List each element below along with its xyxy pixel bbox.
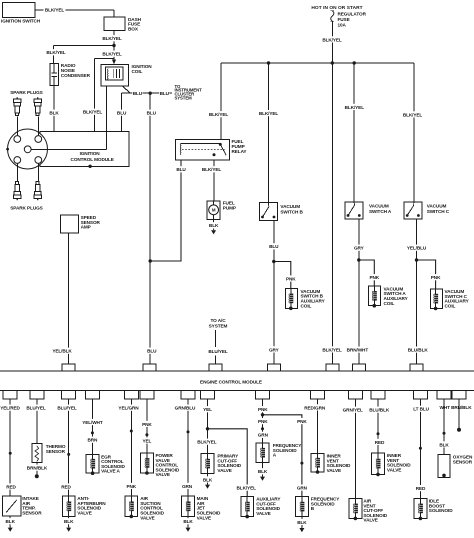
svg-text:BRN/BLK: BRN/BLK: [27, 466, 48, 471]
svg-text:BLK: BLK: [49, 111, 59, 116]
EGR control solenoid valve A: [86, 454, 125, 475]
ECM bottom pin 4: [85, 391, 99, 399]
svg-text:RED: RED: [61, 484, 71, 489]
wire ignition coil to module: [105, 86, 107, 131]
spark plugs label bottom: [10, 205, 42, 210]
svg-text:PUMP: PUMP: [223, 205, 236, 210]
ECM bottom pin 6: [140, 391, 154, 399]
node splice frequency solenoid B wire: [300, 462, 303, 465]
svg-text:BLK: BLK: [297, 520, 307, 525]
oxygen sensor: [438, 454, 473, 477]
svg-text:YEL: YEL: [203, 407, 212, 412]
svg-text:LT BLU: LT BLU: [413, 407, 429, 412]
wire ECM to EGR control solenoid valve YEL/WHT BRN: [81, 399, 103, 455]
svg-text:YEL/GRN: YEL/GRN: [118, 406, 139, 411]
ECM bottom pin 15: [452, 391, 466, 399]
wire distributor to spark plug bottom left: [16, 163, 18, 181]
node splice C5: [130, 430, 133, 433]
inner vent solenoid valve 2: [372, 453, 412, 476]
wire ignition switch to dash fuse box BLK/YEL: [35, 7, 114, 17]
wire ECM to inner vent solenoid valve RED/GRN: [304, 399, 326, 454]
air suction control solenoid valve: [125, 496, 165, 520]
svg-text:M: M: [212, 208, 216, 213]
node bus vacuum switch B tap: [267, 61, 270, 64]
ECM bottom pin 10: [311, 391, 325, 399]
ECM bottom pin 13: [413, 391, 427, 399]
svg-text:GRN: GRN: [182, 484, 193, 489]
wire ECM to oxygen sensor: [439, 399, 450, 455]
svg-text:BLK: BLK: [6, 519, 16, 524]
wire ECM to intake air temp sensor YEL/RED: [0, 399, 21, 496]
wire distributor to spark plug bottom right: [37, 163, 39, 181]
wire bus to vacuum switch A BLK/YEL: [343, 63, 365, 202]
svg-text:BLU: BLU: [160, 91, 170, 96]
wire ignition coil tach output BLU: [122, 86, 173, 96]
svg-text:COIL: COIL: [384, 301, 395, 306]
ground thermo sensor: [35, 474, 39, 478]
frequency solenoid A: [256, 443, 302, 463]
vacuum switch C auxiliary coil L3: [431, 289, 470, 311]
svg-text:BLK/YEL: BLK/YEL: [83, 110, 103, 115]
svg-text:BLK: BLK: [209, 223, 219, 228]
svg-text:BLK/YEL: BLK/YEL: [209, 112, 229, 117]
wire distributor to spark plug top left: [16, 117, 18, 136]
ground primary cut-off solenoid valve: [205, 483, 210, 489]
thermo sensor: [32, 444, 66, 463]
wire vacuum switch B output BLU to ECM GRY: [269, 221, 280, 365]
wire relay to fuel pump BLK/YEL: [201, 160, 223, 201]
ECM top pin 7: [410, 364, 423, 371]
node splice C9: [261, 427, 264, 430]
wire frequency solenoid A BLK to ground: [257, 462, 268, 475]
anti-afterburn solenoid valve: [62, 496, 106, 516]
svg-text:COIL: COIL: [445, 304, 456, 309]
wire main air jet BLK to ground: [183, 516, 194, 526]
node bus fuse junction: [331, 61, 334, 64]
svg-text:RED: RED: [375, 440, 385, 445]
wire frequency solenoid B BLK to ground: [297, 517, 308, 527]
svg-text:BLK/YEL: BLK/YEL: [322, 347, 342, 352]
wire ECM to anti-afterburn solenoid valve BLU/YEL: [56, 399, 78, 496]
svg-text:VALVE: VALVE: [197, 515, 211, 520]
svg-text:BLK/YEL: BLK/YEL: [197, 440, 217, 445]
svg-text:IGNITION: IGNITION: [80, 151, 101, 156]
ECM bottom pin 2: [30, 391, 44, 399]
vacuum switch A S2: [345, 202, 392, 219]
svg-text:BLU: BLU: [147, 111, 157, 116]
svg-text:RED/GRN: RED/GRN: [304, 405, 326, 410]
svg-text:BLU: BLU: [117, 111, 127, 116]
svg-text:SPARK PLUGS: SPARK PLUGS: [10, 90, 42, 95]
svg-text:CONDENSER: CONDENSER: [61, 73, 91, 78]
ground frequency solenoid B: [299, 527, 304, 533]
wire label WHT BRN/BLK: [439, 402, 473, 410]
wire ECM to air suction control solenoid valve YEL/GRN PNK: [118, 399, 140, 496]
node BLU junction to instrument cluster: [149, 92, 152, 95]
svg-text:GRN: GRN: [297, 486, 308, 491]
fuel pump M1: [207, 201, 236, 220]
ECM top pin 6: [352, 364, 365, 371]
wire ECM to air vent cut-off solenoid valve GRN/YEL: [342, 399, 364, 499]
ECM bottom pin 9: [256, 391, 270, 399]
svg-text:BLK/YEL: BLK/YEL: [237, 486, 257, 491]
power valve control solenoid valve: [141, 453, 180, 477]
svg-text:VACUUM: VACUUM: [427, 204, 447, 209]
svg-text:PNK: PNK: [126, 484, 136, 489]
svg-text:PNK: PNK: [258, 419, 268, 424]
distributor: [6, 129, 106, 169]
svg-text:COIL: COIL: [301, 303, 312, 308]
spark plugs label top: [10, 90, 42, 95]
vacuum switch A auxiliary coil L2: [368, 286, 408, 308]
wire distributor to spark plug top right: [37, 117, 39, 136]
wire primary cut-off BLK to ground: [202, 474, 213, 484]
svg-text:SYSTEM: SYSTEM: [175, 95, 193, 100]
node C8 branch junction: [206, 427, 209, 430]
svg-text:BLU: BLU: [176, 167, 186, 172]
svg-text:ENGINE CONTROL MODULE: ENGINE CONTROL MODULE: [200, 380, 262, 385]
svg-text:BLK/YEL: BLK/YEL: [102, 52, 122, 57]
wire junction to radio noise condenser: [45, 46, 114, 64]
wire fuel pump BLK to ground: [208, 219, 219, 228]
intake air temp sensor: [3, 496, 43, 516]
arrow into ignition coil: [112, 60, 116, 65]
wire ECM to primary cut-off solenoid valve YEL BLK/YEL: [196, 399, 218, 454]
idle boost solenoid: [414, 498, 453, 520]
wire ECM to power valve control solenoid valve PNK YEL: [142, 399, 153, 453]
svg-text:GRN/YEL: GRN/YEL: [343, 408, 363, 413]
node on module bottom edge: [88, 165, 91, 168]
svg-text:BLU/YEL: BLU/YEL: [208, 349, 228, 354]
junction node below dash fuse box: [112, 44, 115, 47]
ignition coil U1: [101, 64, 152, 86]
ground main air jet solenoid valve: [186, 526, 191, 532]
node stub end: [457, 428, 461, 432]
wire ECM to main air jet solenoid valve GRN/BLU GRN: [174, 399, 196, 496]
ground frequency solenoid A: [260, 475, 265, 481]
svg-text:BOX: BOX: [128, 26, 139, 31]
wire anti-afterburn BLK to ground: [64, 516, 75, 526]
vacuum switch C S3: [404, 202, 450, 219]
svg-text:BLK/YEL: BLK/YEL: [345, 105, 365, 110]
svg-text:YEL/RED: YEL/RED: [0, 406, 20, 411]
ground anti-afterburn solenoid valve: [66, 526, 71, 532]
wire to A/C system BLU/YEL: [207, 318, 229, 364]
node splice C13: [419, 447, 422, 450]
svg-text:RED: RED: [416, 486, 426, 491]
node splice C6: [145, 433, 148, 436]
svg-text:SOLENOID: SOLENOID: [429, 508, 453, 513]
wire ECM to idle boost solenoid LT BLU RED: [410, 399, 432, 499]
wire branch to vacuum switch B auxiliary coil PNK: [274, 262, 297, 289]
svg-text:SENSOR: SENSOR: [22, 511, 42, 516]
wire ECM stub BRN/BLK: [458, 399, 460, 429]
engine control module: [0, 371, 474, 391]
wire bus to vacuum switch C BLK/YEL: [402, 63, 424, 202]
wire bus to vacuum switch B BLK/YEL: [258, 63, 280, 203]
label to instrument cluster system: [175, 84, 203, 101]
wire branch to vacuum switch A auxiliary coil PNK: [359, 260, 380, 286]
svg-text:CONTROL MODULE: CONTROL MODULE: [71, 157, 114, 162]
svg-text:PNK: PNK: [142, 422, 152, 427]
regulator fuse 10A: [331, 11, 367, 28]
svg-text:YEL/WHT: YEL/WHT: [82, 420, 103, 425]
ECM bottom pin 11: [348, 391, 362, 399]
svg-text:BLU: BLU: [133, 91, 143, 96]
vacuum switch B auxiliary coil L1: [285, 288, 325, 310]
ECM bottom pin 3: [62, 391, 76, 399]
wire branch to frequency solenoid B PNK: [263, 415, 308, 497]
inner vent solenoid valve 1: [311, 453, 351, 474]
svg-text:GRN/BLU: GRN/BLU: [175, 406, 196, 411]
ECM bottom pin 1: [3, 391, 17, 399]
svg-text:VALVE: VALVE: [387, 467, 401, 472]
svg-text:YEL/BLK: YEL/BLK: [52, 349, 72, 354]
wire thermo sensor BRN/BLK: [26, 463, 48, 475]
svg-text:SWITCH A: SWITCH A: [369, 209, 392, 214]
wire vacuum switch C output YEL/BLU to ECM BLU/BLK: [406, 219, 429, 364]
node vacuum switch B branch: [272, 260, 275, 263]
svg-text:BLK: BLK: [64, 519, 74, 524]
node splice C14: [443, 432, 446, 435]
svg-text:BRN/WHT: BRN/WHT: [347, 348, 369, 353]
svg-text:PNK: PNK: [369, 275, 379, 280]
air vent cut-off solenoid valve: [349, 498, 388, 522]
svg-text:BLK/YEL: BLK/YEL: [322, 37, 342, 42]
svg-text:SENSOR: SENSOR: [453, 460, 473, 465]
wire ECM to thermo sensor BLU/YEL: [25, 399, 47, 444]
ground intake air temp sensor: [8, 526, 13, 532]
svg-text:RED: RED: [6, 484, 16, 489]
svg-text:SWITCH C: SWITCH C: [427, 209, 450, 214]
svg-text:SOLENOID: SOLENOID: [311, 501, 335, 506]
svg-text:FUSE: FUSE: [338, 17, 350, 22]
wire speed sensor amp to ECM YEL/BLK: [51, 233, 73, 364]
svg-text:VALVE: VALVE: [140, 515, 154, 520]
ECM bottom pin 14: [437, 391, 451, 399]
svg-text:YEL/BLU: YEL/BLU: [407, 246, 427, 251]
radio noise condenser: [50, 63, 91, 85]
wire ECM to inner vent solenoid valve BLU/BLK RED: [368, 399, 390, 453]
wire BLU main down to ECM: [146, 93, 157, 364]
auxiliary cut-off solenoid valve: [241, 497, 281, 519]
svg-text:RELAY: RELAY: [232, 149, 248, 154]
svg-text:VALVE: VALVE: [327, 468, 341, 473]
spark plug 1: [14, 97, 21, 115]
svg-text:IGNITION SWITCH: IGNITION SWITCH: [1, 18, 41, 23]
svg-text:BLK/YEL: BLK/YEL: [202, 167, 222, 172]
svg-text:AMP: AMP: [81, 225, 91, 230]
node bus vacuum switch A tap: [353, 61, 356, 64]
svg-text:BLK: BLK: [258, 469, 268, 474]
svg-text:SYSTEM: SYSTEM: [209, 323, 228, 328]
speed sensor amp: [61, 215, 101, 233]
wire vacuum switch A output GRY to ECM BRN/WHT: [346, 219, 368, 364]
node C9 branch junction: [261, 413, 264, 416]
ECM top pin 2: [143, 364, 156, 371]
dash fuse box: [104, 17, 142, 32]
ignition control module: [40, 131, 129, 166]
ECM bottom pin 8: [201, 391, 215, 399]
node BLU relay junction: [149, 259, 152, 262]
svg-text:VALVE: VALVE: [77, 511, 91, 516]
svg-text:COIL: COIL: [132, 69, 143, 74]
wire BLU to module: [116, 93, 127, 131]
ECM top pin 5: [326, 364, 339, 371]
node vacuum switch A branch: [357, 258, 360, 261]
BLK/YEL bus wire: [221, 62, 414, 64]
svg-text:REGULATOR: REGULATOR: [338, 12, 367, 17]
svg-text:VALVE: VALVE: [217, 468, 231, 473]
ECM bottom pin 7: [181, 391, 195, 399]
node splice C1: [9, 452, 12, 455]
ground fuel pump: [211, 229, 216, 235]
ECM top pin 1: [62, 364, 75, 371]
svg-text:VALVE: VALVE: [156, 472, 170, 477]
svg-text:BLU/YEL: BLU/YEL: [57, 406, 77, 411]
svg-text:10A: 10A: [338, 22, 347, 27]
svg-text:BLU/YEL: BLU/YEL: [26, 406, 46, 411]
svg-text:BRN: BRN: [87, 438, 98, 443]
wire regulator fuse down to ECM BLK/YEL: [321, 21, 343, 364]
svg-text:BLU: BLU: [147, 349, 157, 354]
svg-text:BLK/YEL: BLK/YEL: [403, 112, 423, 117]
wire intake air temp sensor BLK to ground: [5, 516, 16, 526]
fuel pump relay K1: [176, 139, 248, 160]
frequency solenoid B: [296, 497, 341, 517]
wire branch to vacuum switch C auxiliary coil PNK: [417, 260, 442, 289]
svg-text:BLK/YEL: BLK/YEL: [45, 8, 65, 13]
ECM bottom pin 5: [124, 391, 138, 399]
svg-text:SENSOR: SENSOR: [46, 449, 66, 454]
svg-text:BLU/BLK: BLU/BLK: [408, 348, 429, 353]
svg-text:PNK: PNK: [431, 275, 441, 280]
svg-text:SWITCH B: SWITCH B: [280, 210, 303, 215]
ECM bottom pin 12: [371, 391, 385, 399]
spark plug 4: [34, 182, 41, 201]
svg-text:VALVE A: VALVE A: [101, 469, 120, 474]
svg-text:SOLENOID: SOLENOID: [273, 448, 297, 453]
node splice C12: [377, 432, 380, 435]
svg-text:BLK/YEL: BLK/YEL: [259, 111, 279, 116]
wire branch to auxiliary cut-off solenoid valve BLK/YEL: [208, 429, 258, 497]
svg-text:GRN: GRN: [258, 433, 269, 438]
wire label BLK/YEL: [101, 51, 123, 57]
svg-text:GRY: GRY: [354, 246, 365, 251]
wire branch to module BLK/YEL: [82, 59, 115, 132]
svg-text:BLK: BLK: [439, 442, 449, 447]
svg-text:VALVE: VALVE: [363, 518, 377, 523]
svg-text:PNK: PNK: [286, 276, 296, 281]
primary cut-off solenoid valve: [201, 454, 242, 474]
node splice C3: [67, 453, 70, 456]
wire condenser to ignition control module BLK: [49, 85, 60, 131]
svg-text:BLK/YEL: BLK/YEL: [46, 50, 66, 55]
node splice C4: [91, 431, 94, 434]
node splice C7: [187, 430, 190, 433]
node vacuum switch C branch: [415, 258, 418, 261]
wire relay coil to BLU node: [150, 160, 186, 261]
svg-text:PNK: PNK: [258, 407, 268, 412]
svg-text:GRY: GRY: [269, 347, 280, 352]
svg-text:BLK/YEL: BLK/YEL: [102, 36, 122, 41]
spark plug 2: [34, 97, 41, 115]
wire dash fuse box down BLK/YEL: [101, 31, 123, 63]
svg-text:BLK: BLK: [203, 477, 213, 482]
wire bus to fuel pump relay BLK/YEL: [208, 63, 230, 140]
ECM top pin 3: [209, 364, 222, 371]
ECM top pin 4: [267, 364, 280, 371]
wire ECM to frequency solenoid A PNK GRN: [258, 399, 269, 443]
label hot in on or start: [311, 5, 362, 11]
spark plug 3: [14, 182, 21, 201]
svg-text:VACUUM: VACUUM: [369, 204, 389, 209]
svg-text:BLU/BLK: BLU/BLK: [369, 408, 390, 413]
vacuum switch B S1: [260, 203, 304, 221]
svg-text:BLU: BLU: [269, 244, 279, 249]
svg-text:VACUUM: VACUUM: [280, 204, 300, 209]
svg-text:HOT IN ON OR START: HOT IN ON OR START: [311, 5, 362, 11]
main air jet solenoid valve: [182, 496, 221, 520]
svg-text:SPARK PLUGS: SPARK PLUGS: [10, 205, 42, 210]
svg-text:PNK: PNK: [297, 419, 307, 424]
ignition switch: [1, 3, 41, 24]
svg-text:VALVE: VALVE: [256, 511, 270, 516]
svg-text:YEL: YEL: [142, 438, 151, 443]
svg-text:BLK: BLK: [183, 519, 193, 524]
